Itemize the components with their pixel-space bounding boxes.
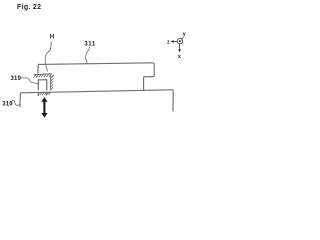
- svg-text:z: z: [167, 39, 170, 45]
- svg-text:y: y: [183, 31, 186, 37]
- y axis circle with dot (out of page): [177, 38, 182, 43]
- upper plate 311 outline (top line, right step): [38, 63, 154, 91]
- svg-text:Fig. 22: Fig. 22: [17, 4, 41, 11]
- upper plate left end vertical: [37, 64, 39, 73]
- double-headed movement arrow: [41, 97, 47, 117]
- x axis arrow (pointing down): [179, 44, 181, 49]
- svg-text:x: x: [178, 54, 181, 60]
- hook H hatched horizontal edge: [34, 74, 52, 75]
- protrusion 319 box: [38, 80, 47, 91]
- z axis arrow (pointing left): [173, 40, 177, 42]
- hatch ticks below line under box: [37, 92, 50, 95]
- leader line from 310 to lower plate: [11, 100, 20, 105]
- hook H hatched vertical edge: [49, 76, 51, 90]
- svg-text:H: H: [50, 35, 54, 41]
- tick toward y label: [182, 37, 184, 39]
- svg-text:311: 311: [84, 40, 96, 47]
- sectioned notch below line under box: [38, 92, 46, 96]
- leader line from H to hook: [45, 41, 51, 71]
- svg-text:319: 319: [11, 76, 22, 82]
- hatch ticks right of vertical edge: [50, 76, 53, 91]
- leader line from 311 to top plate: [85, 47, 89, 64]
- lower plate 310 outline (long top line with end corners): [20, 90, 173, 112]
- hatch ticks under horizontal edge: [33, 74, 54, 78]
- leader line from 319 to protrusion box: [20, 78, 38, 85]
